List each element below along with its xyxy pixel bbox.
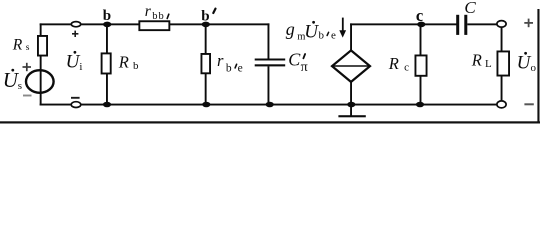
svg-text:i: i bbox=[79, 61, 82, 73]
svg-text:c: c bbox=[404, 62, 409, 74]
capacitor C1 C'pi plates bbox=[255, 59, 286, 61]
svg-text:b: b bbox=[201, 8, 209, 24]
minus of Ui bbox=[71, 97, 80, 99]
wire: C right to output terminal bbox=[467, 23, 497, 25]
wire: top rail left section (node b net) bbox=[40, 23, 270, 25]
svg-text:e: e bbox=[238, 62, 243, 74]
bottom border line bbox=[0, 121, 540, 123]
wire: Rc branch vertical top bbox=[420, 24, 422, 55]
resistor R2 Rb box bbox=[102, 53, 111, 73]
svg-text:c: c bbox=[416, 6, 423, 25]
right border line bbox=[537, 9, 539, 124]
node c dot bbox=[417, 22, 425, 28]
node: C'pi bottom junction dot bbox=[266, 102, 274, 108]
wire: Rb branch vertical top bbox=[106, 24, 108, 53]
wire: Rb branch vertical bottom bbox=[106, 74, 108, 105]
wire: r_b'e branch vertical top bbox=[205, 24, 207, 54]
terminal: input top circle bbox=[71, 22, 80, 27]
wire: diamond top vertical bbox=[350, 23, 352, 50]
svg-text:U: U bbox=[304, 22, 319, 43]
svg-text:L: L bbox=[485, 58, 492, 70]
wire: C'pi branch vertical top bbox=[268, 23, 270, 58]
terminal: input bottom circle bbox=[71, 102, 81, 108]
terminal: output bottom circle bbox=[497, 101, 506, 108]
svg-text:s: s bbox=[26, 43, 30, 53]
svg-text:C: C bbox=[288, 50, 301, 70]
svg-text:U: U bbox=[66, 51, 81, 72]
svg-text:b: b bbox=[103, 8, 111, 24]
resistor R4 r_b'e box bbox=[201, 54, 210, 73]
chord inside diamond bbox=[332, 65, 370, 67]
wire: RL branch vertical bottom bbox=[501, 76, 503, 102]
ground stub below rail bbox=[350, 105, 352, 116]
svg-text:R: R bbox=[12, 37, 23, 54]
wire: RL branch vertical top bbox=[501, 27, 503, 51]
terminal: output top circle bbox=[497, 21, 506, 28]
resistor R3 r_bb' box (horizontal) bbox=[139, 21, 169, 30]
svg-text:π: π bbox=[301, 60, 308, 75]
plus of Uo bbox=[524, 19, 533, 28]
resistor R6 RL box bbox=[497, 51, 509, 75]
svg-text:R: R bbox=[118, 53, 129, 72]
wire: bottom rail bbox=[40, 104, 497, 106]
resistor R1 Rs box bbox=[38, 36, 47, 56]
svg-text:b: b bbox=[319, 30, 325, 42]
node: Rb bottom junction dot bbox=[103, 102, 111, 108]
svg-text:R: R bbox=[388, 54, 399, 73]
resistor R5 Rc box bbox=[415, 55, 426, 75]
plus of Ui bbox=[72, 31, 78, 37]
arrow: current direction bbox=[339, 18, 346, 38]
svg-text:r: r bbox=[145, 3, 152, 20]
svg-text:g: g bbox=[286, 19, 295, 39]
wire: Rc branch vertical bottom bbox=[420, 76, 422, 105]
wire: r_b'e branch vertical bottom bbox=[205, 73, 207, 105]
svg-text:b: b bbox=[133, 60, 139, 72]
plus of Us bbox=[23, 63, 32, 71]
node b dot bbox=[103, 22, 111, 28]
dependent source G1 diamond bbox=[332, 50, 370, 82]
wire: left branch vertical (Us/Rs) bbox=[40, 23, 42, 105]
node b' dot bbox=[202, 22, 210, 28]
svg-text:e: e bbox=[331, 30, 336, 42]
minus of Us bbox=[23, 95, 32, 97]
source U1 Us ellipse bbox=[26, 70, 54, 93]
wire: diamond bottom vertical bbox=[350, 82, 352, 106]
svg-text:U: U bbox=[517, 53, 532, 74]
svg-text:bb: bb bbox=[152, 11, 165, 22]
svg-text:C: C bbox=[464, 0, 476, 17]
node: Rc bottom junction dot bbox=[416, 102, 424, 108]
wire: top rail right section (node c net) bbox=[350, 23, 457, 25]
svg-text:b: b bbox=[226, 62, 232, 74]
node: diamond bottom junction dot bbox=[347, 102, 355, 108]
svg-text:R: R bbox=[471, 51, 482, 70]
node: r_b'e bottom junction dot bbox=[202, 102, 210, 108]
svg-text:s: s bbox=[18, 80, 22, 92]
minus of Uo bbox=[524, 103, 533, 105]
svg-text:r: r bbox=[217, 51, 224, 70]
capacitor C2 C plates bbox=[456, 15, 459, 35]
ground bar bbox=[338, 115, 365, 117]
wire: C'pi branch vertical bottom bbox=[268, 66, 270, 105]
svg-text:o: o bbox=[531, 62, 537, 74]
